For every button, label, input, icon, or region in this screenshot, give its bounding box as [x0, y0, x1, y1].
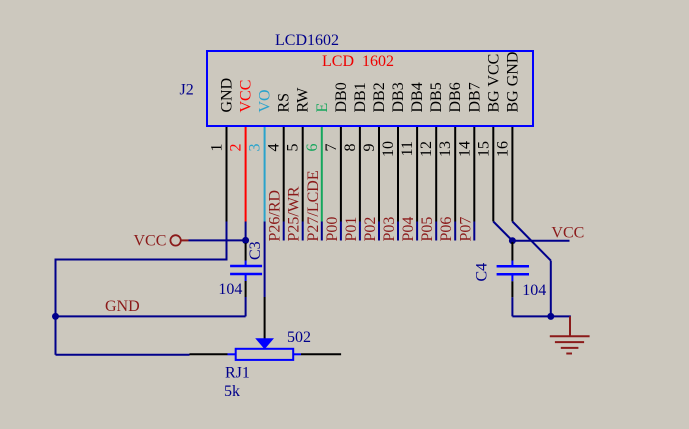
- wire stub pin 8: [359, 222, 361, 241]
- wire stub pin 7: [340, 222, 342, 241]
- ground bar 4: [566, 353, 572, 355]
- pin 10 lead: [397, 127, 399, 222]
- svg-text:16: 16: [494, 141, 511, 157]
- wire pin15 diagonal to VCC junction: [493, 222, 512, 241]
- svg-text:C4: C4: [474, 263, 491, 282]
- pin 16 lead: [511, 127, 513, 222]
- wire pin1 horizontal left: [56, 259, 228, 261]
- wire VCC to pin2: [189, 239, 246, 241]
- svg-text:14: 14: [456, 141, 473, 157]
- svg-text:P27/LCDE: P27/LCDE: [305, 170, 322, 241]
- C4 top pin: [511, 242, 513, 261]
- svg-text:9: 9: [361, 144, 378, 152]
- C4 top stub: [511, 261, 513, 267]
- C4 bottom stub: [511, 275, 513, 282]
- svg-text:P07: P07: [457, 217, 474, 242]
- wire left rail vertical: [55, 259, 57, 355]
- pin 5 lead: [302, 127, 304, 222]
- svg-text:104: 104: [522, 282, 546, 299]
- svg-text:C3: C3: [247, 241, 264, 260]
- svg-text:8: 8: [342, 144, 359, 152]
- svg-text:E: E: [314, 103, 331, 113]
- svg-text:VCC: VCC: [134, 233, 167, 250]
- svg-text:P06: P06: [438, 217, 455, 242]
- svg-text:15: 15: [475, 141, 492, 157]
- svg-text:4: 4: [266, 144, 283, 152]
- wire pin16 vertical: [550, 261, 552, 317]
- svg-text:5: 5: [285, 144, 302, 152]
- RJ1 left stub: [228, 353, 236, 355]
- wire stub pin 10: [397, 222, 399, 241]
- RJ1 right pin: [301, 353, 341, 355]
- pin 2 lead (VCC red): [245, 127, 247, 222]
- C3 bottom stub: [245, 274, 247, 281]
- svg-text:DB5: DB5: [428, 82, 445, 112]
- svg-text:P04: P04: [400, 217, 417, 242]
- svg-text:2: 2: [228, 144, 245, 152]
- svg-text:12: 12: [418, 141, 435, 157]
- svg-text:P02: P02: [362, 217, 379, 242]
- svg-text:J2: J2: [180, 81, 194, 98]
- wire C3 bottom vertical: [245, 297, 247, 316]
- C4 top plate: [497, 265, 529, 268]
- short wire stubs on pins 4-14: [284, 222, 475, 241]
- pin 7 lead: [340, 127, 342, 222]
- ground stem: [569, 316, 571, 336]
- wire stub pin 13: [454, 222, 456, 241]
- svg-text:6: 6: [304, 144, 321, 152]
- C3 bottom pin: [245, 281, 247, 297]
- pin 12 lead: [435, 127, 437, 222]
- svg-text:VCC: VCC: [551, 225, 584, 242]
- svg-text:104: 104: [218, 281, 242, 298]
- svg-text:P25/WR: P25/WR: [286, 186, 303, 241]
- svg-text:502: 502: [287, 329, 311, 346]
- wire VCC right horizontal: [512, 240, 569, 242]
- pin 6 lead (E green): [321, 127, 323, 222]
- VCC terminal stub: [181, 239, 189, 241]
- capacitor C4: [474, 242, 547, 316]
- svg-text:DB4: DB4: [409, 82, 426, 112]
- svg-text:GND: GND: [105, 298, 140, 315]
- svg-text:DB7: DB7: [466, 82, 483, 112]
- C4 bottom pin: [511, 281, 513, 297]
- pin 11 lead: [416, 127, 418, 222]
- wire stub pin 6: [321, 222, 323, 241]
- wire pin3 to potentiometer wiper: [264, 222, 266, 298]
- svg-text:GND: GND: [219, 78, 236, 113]
- svg-text:11: 11: [399, 141, 416, 156]
- pin 4 lead: [283, 127, 285, 222]
- pin name labels inside box: [219, 52, 522, 113]
- wire pin16 diagonal: [512, 222, 550, 261]
- ground bar 2: [555, 341, 584, 343]
- RJ1 body: [236, 349, 294, 360]
- svg-text:P26/RD: P26/RD: [267, 190, 284, 242]
- wire pin1 vertical: [226, 222, 228, 260]
- svg-text:LCD1602: LCD1602: [275, 32, 339, 49]
- wire bottom to pot left: [56, 354, 190, 356]
- wiper arrow: [255, 338, 274, 349]
- svg-text:DB3: DB3: [390, 82, 407, 112]
- wire stub pin 12: [435, 222, 437, 241]
- svg-text:3: 3: [247, 144, 264, 152]
- svg-text:P01: P01: [343, 217, 360, 242]
- svg-text:1: 1: [209, 144, 226, 152]
- svg-text:10: 10: [380, 141, 397, 157]
- wire stub pin 5: [302, 222, 304, 241]
- pin 1 lead: [226, 127, 228, 222]
- junction pin2/VCC/C3: [242, 237, 249, 244]
- svg-text:DB1: DB1: [352, 82, 369, 112]
- capacitor C3: [218, 241, 264, 298]
- junction pin15/VCC/C4: [509, 237, 516, 244]
- ground symbol: [550, 316, 590, 353]
- C3 top stub: [245, 261, 247, 266]
- svg-text:BG VCC: BG VCC: [485, 54, 502, 113]
- svg-text:P05: P05: [419, 217, 436, 242]
- RJ1 right stub: [293, 353, 301, 355]
- svg-text:RJ1: RJ1: [225, 365, 250, 382]
- pin 8 lead: [359, 127, 361, 222]
- wire pin1 GND net: down, left, down, to pot: [56, 222, 246, 355]
- pin 14 lead: [473, 127, 475, 222]
- VCC terminal circle: [170, 235, 180, 245]
- wire stub pin 14: [473, 222, 475, 241]
- pin 15 lead: [492, 127, 494, 222]
- svg-text:P00: P00: [324, 217, 341, 242]
- connector J2 body: [207, 51, 533, 126]
- ground bar 1: [550, 335, 590, 337]
- pin 13 lead: [454, 127, 456, 222]
- svg-text:LCD 1602: LCD 1602: [322, 53, 394, 70]
- junction GND left rail: [52, 313, 59, 320]
- svg-text:VCC: VCC: [238, 80, 255, 113]
- wire stub pin 11: [416, 222, 418, 241]
- junction ground: [547, 313, 554, 320]
- pin numbers: [209, 141, 512, 157]
- C3 bottom plate: [230, 273, 262, 276]
- svg-text:13: 13: [437, 141, 454, 157]
- svg-text:5k: 5k: [224, 383, 240, 400]
- wire stub pin 9: [378, 222, 380, 241]
- pin 3 lead (VO teal): [264, 127, 266, 222]
- wiper pin black: [264, 297, 266, 340]
- svg-text:DB2: DB2: [371, 82, 388, 112]
- net labels on data wires: [267, 170, 475, 241]
- svg-text:BG GND: BG GND: [504, 52, 521, 113]
- potentiometer RJ1: [190, 329, 342, 400]
- pin leads from box: [227, 127, 513, 222]
- svg-text:VO: VO: [257, 89, 274, 112]
- wire C4 bottom horizontal: [512, 315, 571, 317]
- wire GND horizontal: [56, 315, 246, 317]
- pin 9 lead: [378, 127, 380, 222]
- svg-text:DB6: DB6: [447, 82, 464, 112]
- svg-text:RW: RW: [295, 87, 312, 113]
- svg-text:DB0: DB0: [333, 82, 350, 112]
- svg-text:7: 7: [323, 144, 340, 152]
- C3 top plate: [230, 265, 262, 268]
- ground bar 3: [561, 347, 579, 349]
- RJ1 left pin: [190, 353, 228, 355]
- C4 bottom wire: [511, 297, 513, 316]
- C4 bottom plate: [497, 273, 529, 276]
- C3 top pin: [245, 243, 247, 261]
- svg-text:P03: P03: [381, 217, 398, 242]
- svg-text:RS: RS: [276, 93, 293, 113]
- wire pin2 down to junction: [245, 222, 247, 241]
- wire stub pin 4: [283, 222, 285, 241]
